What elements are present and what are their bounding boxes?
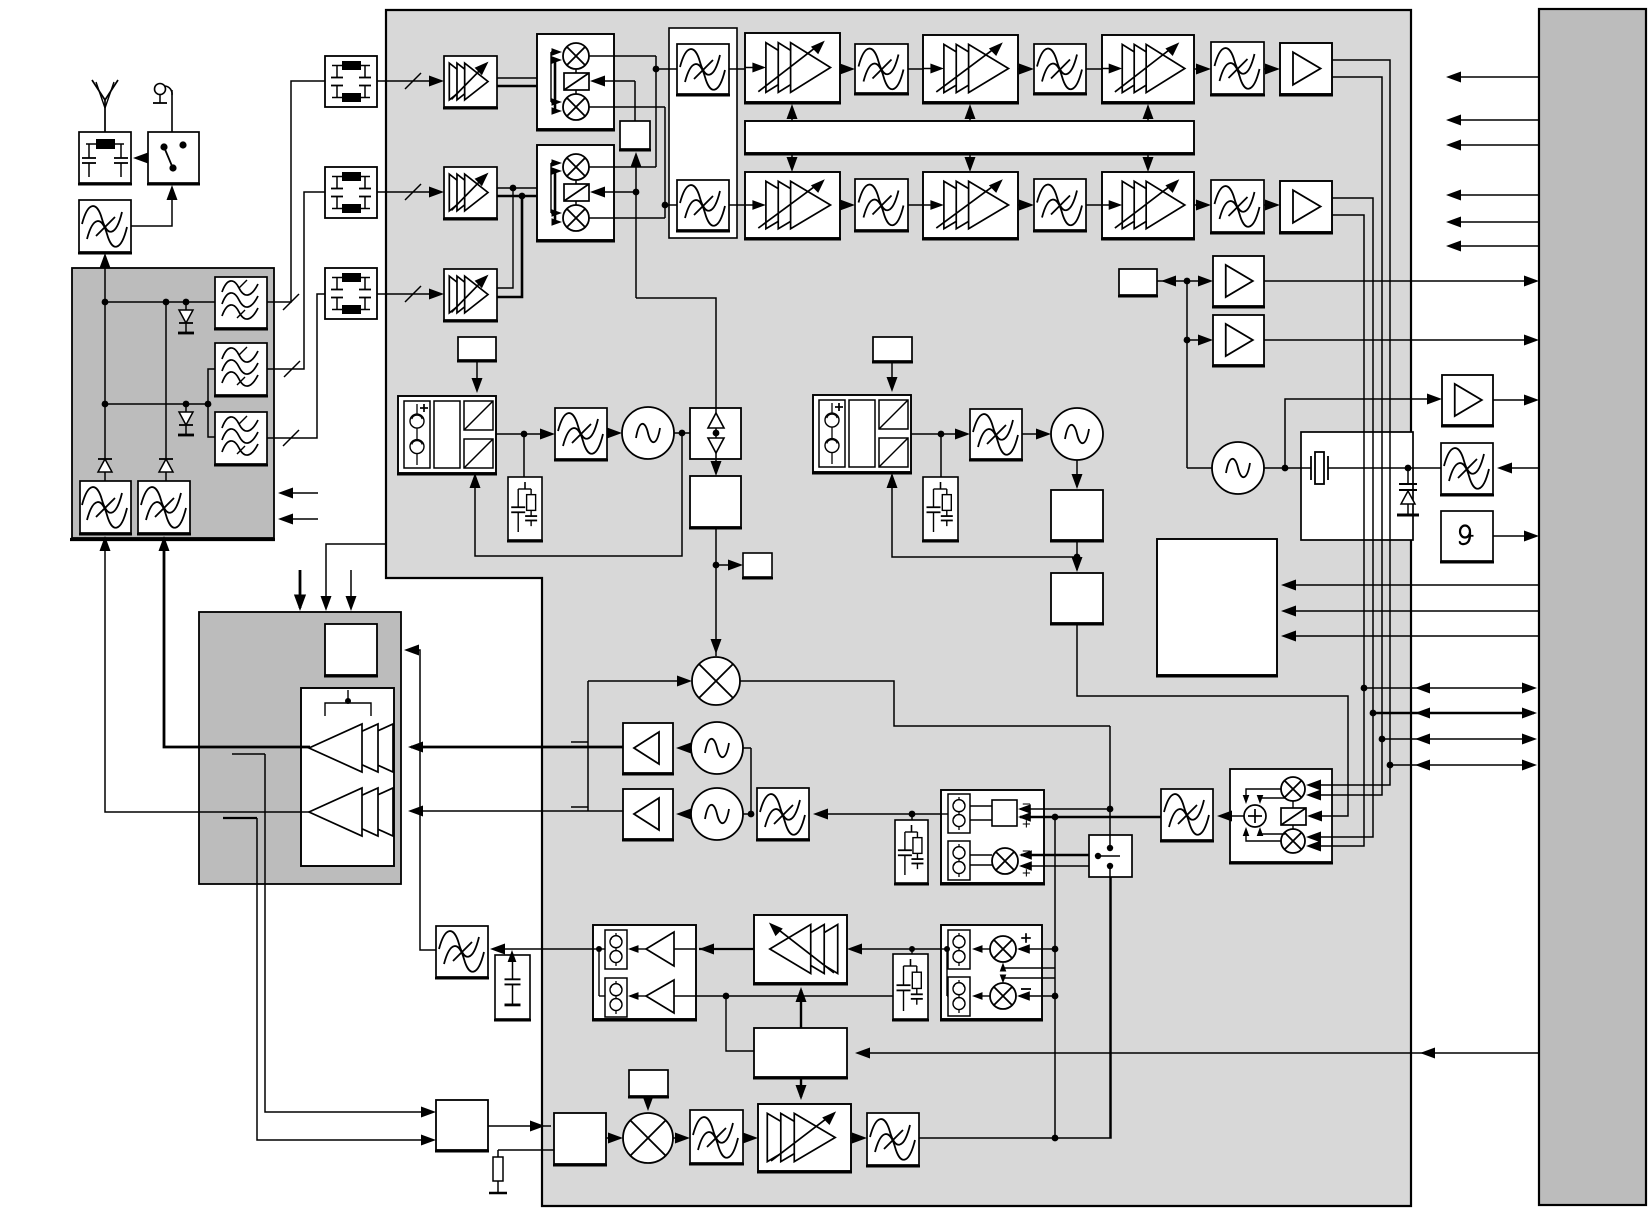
wire chain	[1086, 204, 1102, 206]
wire PD1 out	[496, 429, 555, 478]
wire U1 mixer-b out to BPF2	[589, 107, 677, 218]
wire enable 3	[346, 570, 357, 611]
clock buffer U11	[1212, 315, 1265, 366]
calibration box U13	[1156, 539, 1278, 676]
wire x1110 down	[1107, 726, 1114, 848]
VGA B2	[922, 172, 1019, 239]
ILO oscillator G2	[691, 722, 743, 774]
wire osc to crystal	[1187, 465, 1301, 472]
baseband connector bar (dark gray)	[1539, 9, 1646, 1205]
wire FL2 to balun T1	[267, 81, 325, 302]
AGC up arrow	[1143, 104, 1154, 121]
PA amplifier stage block	[301, 688, 394, 866]
wire TXVGA1 to U18	[699, 944, 754, 955]
PA sense tap 2	[223, 817, 257, 819]
wire bus2 to RX filters	[208, 369, 215, 437]
wire FB3 to B4	[1264, 200, 1280, 211]
limiter diode D3	[98, 459, 112, 481]
control line from connector	[1446, 140, 1539, 151]
wire demod to FL9	[813, 809, 947, 821]
TX PA drive wire 2	[408, 806, 623, 817]
VCO2	[1051, 408, 1103, 460]
crystal box Y1	[1301, 432, 1413, 540]
demod switch S2	[1089, 835, 1132, 877]
LO phase input U2	[590, 187, 636, 198]
wire ILO injection	[743, 748, 754, 817]
filter FA1	[854, 44, 909, 94]
wire connector to FX1	[1497, 463, 1539, 474]
wire U16 mixer plus input	[1019, 861, 1089, 870]
band filter FL1 (antenna path)	[78, 200, 132, 253]
RX band filter FL4	[214, 412, 268, 465]
wire G3 to U15	[676, 809, 691, 820]
control stub arrow into front-end 1	[278, 488, 318, 499]
LO divider box U3	[619, 121, 651, 150]
phase detector PD1	[397, 396, 497, 474]
wire TX sense x1055	[1052, 817, 1059, 1141]
power detector U21	[435, 1100, 489, 1151]
reference box PLL2	[872, 337, 913, 362]
node bus1	[102, 299, 215, 306]
antenna matching network Z1	[78, 132, 132, 184]
wire U18 to FL11	[490, 944, 593, 955]
wire U5 tap to box U6	[716, 560, 743, 571]
wire theta to connector	[1493, 531, 1539, 542]
antenna switch S1	[147, 132, 200, 184]
wire LO distribution x636	[631, 152, 717, 408]
divider tap box U6	[742, 553, 773, 578]
wire FA3 to A4	[1264, 64, 1280, 75]
TX loop filter RC4	[892, 954, 929, 1020]
demod loop filter RC3	[894, 820, 929, 884]
wire U22 to mixer M2	[606, 1133, 623, 1144]
esd diode D1	[178, 302, 194, 333]
wire U23 to M2	[643, 1096, 654, 1111]
wire switch jack mast	[171, 90, 173, 95]
limiter buffer B4	[1279, 181, 1333, 233]
wire y996 row	[696, 993, 893, 1000]
I/Q mixer block U2	[536, 145, 615, 241]
wire PD2 out	[911, 429, 970, 478]
wire bus1 down x105	[104, 302, 106, 459]
VCO1	[622, 407, 674, 459]
wire T1-LNA1	[377, 73, 444, 89]
wire U16 mixer minus input	[1019, 850, 1089, 859]
esd diode D2	[178, 404, 194, 435]
wire U8 to modulator phase	[1077, 623, 1348, 816]
TX ramp box U22	[553, 1113, 607, 1165]
wire TX up into FL5	[100, 536, 111, 551]
control line from connector	[1446, 217, 1539, 228]
bus I+ line	[1361, 683, 1537, 694]
wire FL7 to VCO1	[607, 428, 622, 439]
wire M1 input	[571, 676, 692, 812]
wire ref to PD2	[887, 361, 898, 392]
AGC up arrow	[787, 104, 798, 121]
wire chain	[1018, 64, 1034, 75]
wire U17 out to FL10	[1217, 811, 1244, 822]
main IC body (light gray region)	[386, 10, 1411, 1206]
wire PA sense 1	[265, 754, 436, 1118]
wire I+ to modulator	[1335, 688, 1364, 846]
wire S2 down	[1109, 877, 1111, 1138]
TX filter FL12	[689, 1110, 744, 1164]
wire FL3 to balun T2	[267, 192, 325, 369]
wire U2 mixer-b out	[589, 217, 665, 219]
PA output 1 wire	[164, 548, 310, 747]
wire FL4 to balun T3	[267, 294, 325, 438]
TX IF VGA (TXVGA1)	[753, 915, 848, 984]
PA output 2 wire	[105, 548, 310, 812]
PLL1 filter FL7	[554, 408, 608, 460]
wire y996 tap to U20	[726, 996, 754, 1051]
node bus2	[102, 401, 212, 408]
quadrature modulator U17	[1229, 769, 1333, 863]
wire osc tap to buffer U12	[1285, 394, 1442, 469]
TX modulation filter FL10	[1160, 789, 1214, 841]
wire FL8 to VCO2	[1022, 429, 1051, 440]
demodulator block U16	[940, 790, 1045, 884]
AGC down arrow	[965, 153, 976, 172]
wire LO to U3/U1	[634, 81, 636, 121]
wire filter FL1 to switch S1	[131, 185, 178, 226]
wire PA sense 2	[257, 818, 436, 1146]
PA sense tap 1	[232, 753, 265, 755]
bus wires over crystal box	[1364, 432, 1390, 540]
wire A4 outputs	[1332, 60, 1390, 765]
wire U2 mixer-a out	[589, 166, 656, 168]
wire U19 mixer2 in	[1017, 991, 1055, 1000]
limiter amp U15	[622, 789, 674, 840]
RX band filter FL2	[214, 277, 268, 329]
wire chain	[908, 204, 923, 206]
wire U16 PD plus input (TX sense)	[1018, 812, 1161, 821]
balun T2	[325, 167, 377, 218]
control line from connector	[1446, 190, 1539, 201]
wire U4 down to divider U5	[711, 459, 722, 476]
wire to buffer U11	[1184, 281, 1539, 468]
AGC down arrow	[1143, 153, 1154, 172]
wire TXVGA2 to FL13	[851, 1133, 867, 1144]
reference box PLL1	[457, 337, 497, 361]
phase detector PD2	[812, 395, 912, 473]
limiter block U18 (TX IF)	[592, 925, 697, 1020]
clock buffer U12	[1441, 375, 1539, 426]
wire ref to PD1	[472, 360, 483, 393]
diff marker wire FL4	[283, 430, 299, 446]
wire mod in LO	[1307, 811, 1335, 822]
wire B4 outputs	[1332, 198, 1373, 713]
wire bus1 up to FL1	[104, 268, 106, 302]
PLL1 feedback wire	[470, 433, 683, 556]
filter FB1	[854, 179, 909, 231]
wire Q+ to modulator	[1335, 739, 1382, 795]
LO buffer split box U4	[690, 408, 741, 459]
limiter buffer A4	[1279, 43, 1333, 95]
bias resistor R1	[489, 1150, 554, 1193]
antenna jack J1	[153, 84, 172, 133]
AGC down arrow	[787, 153, 798, 172]
wire U20 to TXVGA1	[796, 987, 807, 1028]
wire chain	[908, 68, 923, 70]
wire Q- to modulator	[1335, 765, 1390, 785]
wire mod in I+	[1306, 841, 1335, 852]
wire M2 to FL12	[673, 1133, 690, 1144]
limiter diode D4	[159, 459, 173, 481]
wire U16 PD minus input	[1018, 804, 1110, 813]
TX output filter FL6	[137, 481, 191, 534]
reference I/O box	[1118, 269, 1158, 296]
wire switch to matching network	[133, 153, 148, 164]
VGA A1	[744, 33, 841, 103]
filter FA3	[1210, 42, 1265, 95]
AGC control box	[744, 121, 1195, 154]
hold capacitor C1	[494, 950, 531, 1020]
PLL2 filter FL8	[969, 409, 1023, 460]
wire VCO1 out	[674, 430, 690, 437]
bus Q- line	[1387, 760, 1537, 771]
control line from connector	[1446, 115, 1539, 126]
ILO oscillator G3	[691, 788, 743, 840]
upconvert mixer M2	[623, 1113, 673, 1163]
TX output filter FL5	[79, 481, 132, 534]
wire U18 in 2	[674, 995, 696, 997]
filter FB3	[1210, 180, 1265, 233]
wire BPF1 to chain A	[729, 68, 745, 70]
TX PA drive bold wire	[408, 742, 623, 753]
wire U20 to TXVGA2	[796, 1077, 807, 1100]
balun T3	[325, 268, 377, 319]
varactor diode D5	[1397, 468, 1419, 515]
wire VCO2 to divider U7	[1072, 460, 1083, 489]
wire FL12 to TXVGA2	[743, 1133, 758, 1144]
VGA B1	[744, 172, 841, 239]
TX loop output filter FL11	[435, 926, 489, 978]
control line from connector	[1446, 72, 1539, 83]
LO divider U5	[689, 476, 742, 528]
wire connector to U20	[855, 1048, 1539, 1059]
filter FB2	[1033, 179, 1087, 231]
I/Q mixer block U1	[536, 34, 615, 130]
offset mixer M1	[692, 657, 740, 705]
wire BPF2 to chain B	[729, 204, 745, 206]
white channel for band filters	[669, 28, 737, 238]
LNA2 (variable gain)	[443, 167, 498, 219]
wire connector to U13	[1281, 631, 1539, 642]
PLL2 feedback wire	[887, 473, 1078, 557]
TX output VGA (TXVGA2)	[757, 1104, 852, 1172]
filter FA2	[1033, 44, 1087, 94]
injection filter FL9	[756, 788, 810, 840]
wire U7 to U8	[1072, 540, 1083, 572]
wire bus1 down x166	[165, 302, 167, 459]
wire connector to U13	[1281, 580, 1539, 591]
wire U21 to U22	[488, 1121, 551, 1132]
wire chain	[1194, 64, 1211, 75]
front-end module box (dark gray, antenna filters)	[70, 268, 275, 540]
LO phase input U1	[590, 76, 635, 87]
wire TX out	[919, 877, 1111, 1138]
antenna ANT1	[92, 80, 118, 132]
wire U16b to TXVGA1	[847, 944, 941, 955]
wire chain	[840, 200, 855, 211]
diff marker wire FL3	[284, 361, 300, 377]
crystal oscillator G1	[1212, 442, 1264, 494]
bus Q+ line	[1379, 734, 1537, 745]
control stub arrow into front-end 2	[278, 514, 318, 525]
wire LNA2 outputs	[497, 185, 555, 200]
diff marker wire FL2	[283, 294, 299, 310]
wire chain	[1194, 200, 1211, 211]
VGA A2	[922, 35, 1019, 103]
crystal Y1 symbol	[1301, 452, 1441, 484]
control line from connector	[1446, 241, 1539, 252]
TX VGA control box U20	[753, 1028, 848, 1078]
wire LNA3 outputs joining LNA2	[497, 188, 522, 297]
wire up into FL1	[100, 253, 111, 268]
wire enable 2	[321, 544, 387, 611]
wire U19 mixer1 in	[1017, 944, 1055, 953]
TX divider U7	[1050, 490, 1104, 541]
wire U18 in 1	[674, 948, 696, 950]
wire mod in Q+	[1306, 790, 1335, 801]
wire M1 out	[740, 681, 1110, 726]
IF band-pass filter BPF2	[676, 180, 730, 231]
wire U5 out	[711, 527, 722, 656]
wire I- to modulator	[1335, 713, 1373, 837]
wire U1 mixer-a out to BPF1	[589, 56, 677, 167]
clock buffer U10	[1212, 256, 1265, 307]
wire G2 to U14	[676, 743, 691, 754]
wire mod in Q-	[1306, 780, 1335, 791]
reference filter FX1	[1440, 443, 1494, 495]
wire chain	[840, 64, 855, 75]
LNA1 (variable gain)	[443, 56, 498, 108]
wire enable bold	[294, 570, 306, 611]
TX filter FL13	[866, 1113, 920, 1166]
wire T3-LNA3	[377, 286, 444, 302]
temperature sensor (theta)	[1440, 511, 1494, 562]
wire chain	[1018, 200, 1034, 211]
AGC up arrow	[965, 104, 976, 121]
PA control box U24	[324, 624, 378, 676]
wire connector to U13	[1281, 606, 1539, 617]
wire chain	[1086, 68, 1102, 70]
balun T1	[325, 56, 377, 107]
PA module box (dark gray)	[199, 612, 401, 884]
wire FL11 up to PA control	[404, 645, 436, 951]
wire refbox to buffer U10	[1157, 276, 1539, 287]
LNA3 (variable gain)	[443, 269, 498, 321]
IF band-pass filter BPF1	[676, 44, 730, 95]
wire mod in I-	[1306, 832, 1335, 843]
wire T2-LNA2	[377, 184, 444, 200]
VGA B3	[1101, 172, 1195, 239]
downconvert mixer block U19	[940, 925, 1055, 1020]
TX divider U8	[1050, 573, 1104, 624]
limiter amp U14	[622, 723, 674, 774]
RX band filter FL3	[214, 343, 268, 396]
VGA A3	[1101, 35, 1195, 103]
LO reference box U23	[628, 1070, 669, 1097]
wire TX up into FL6	[159, 536, 170, 551]
bus I- line	[1370, 708, 1537, 719]
loop filter RC2	[922, 477, 959, 541]
loop filter RC1	[507, 477, 543, 541]
wire LNA1 outputs to mixer U1	[497, 78, 555, 86]
